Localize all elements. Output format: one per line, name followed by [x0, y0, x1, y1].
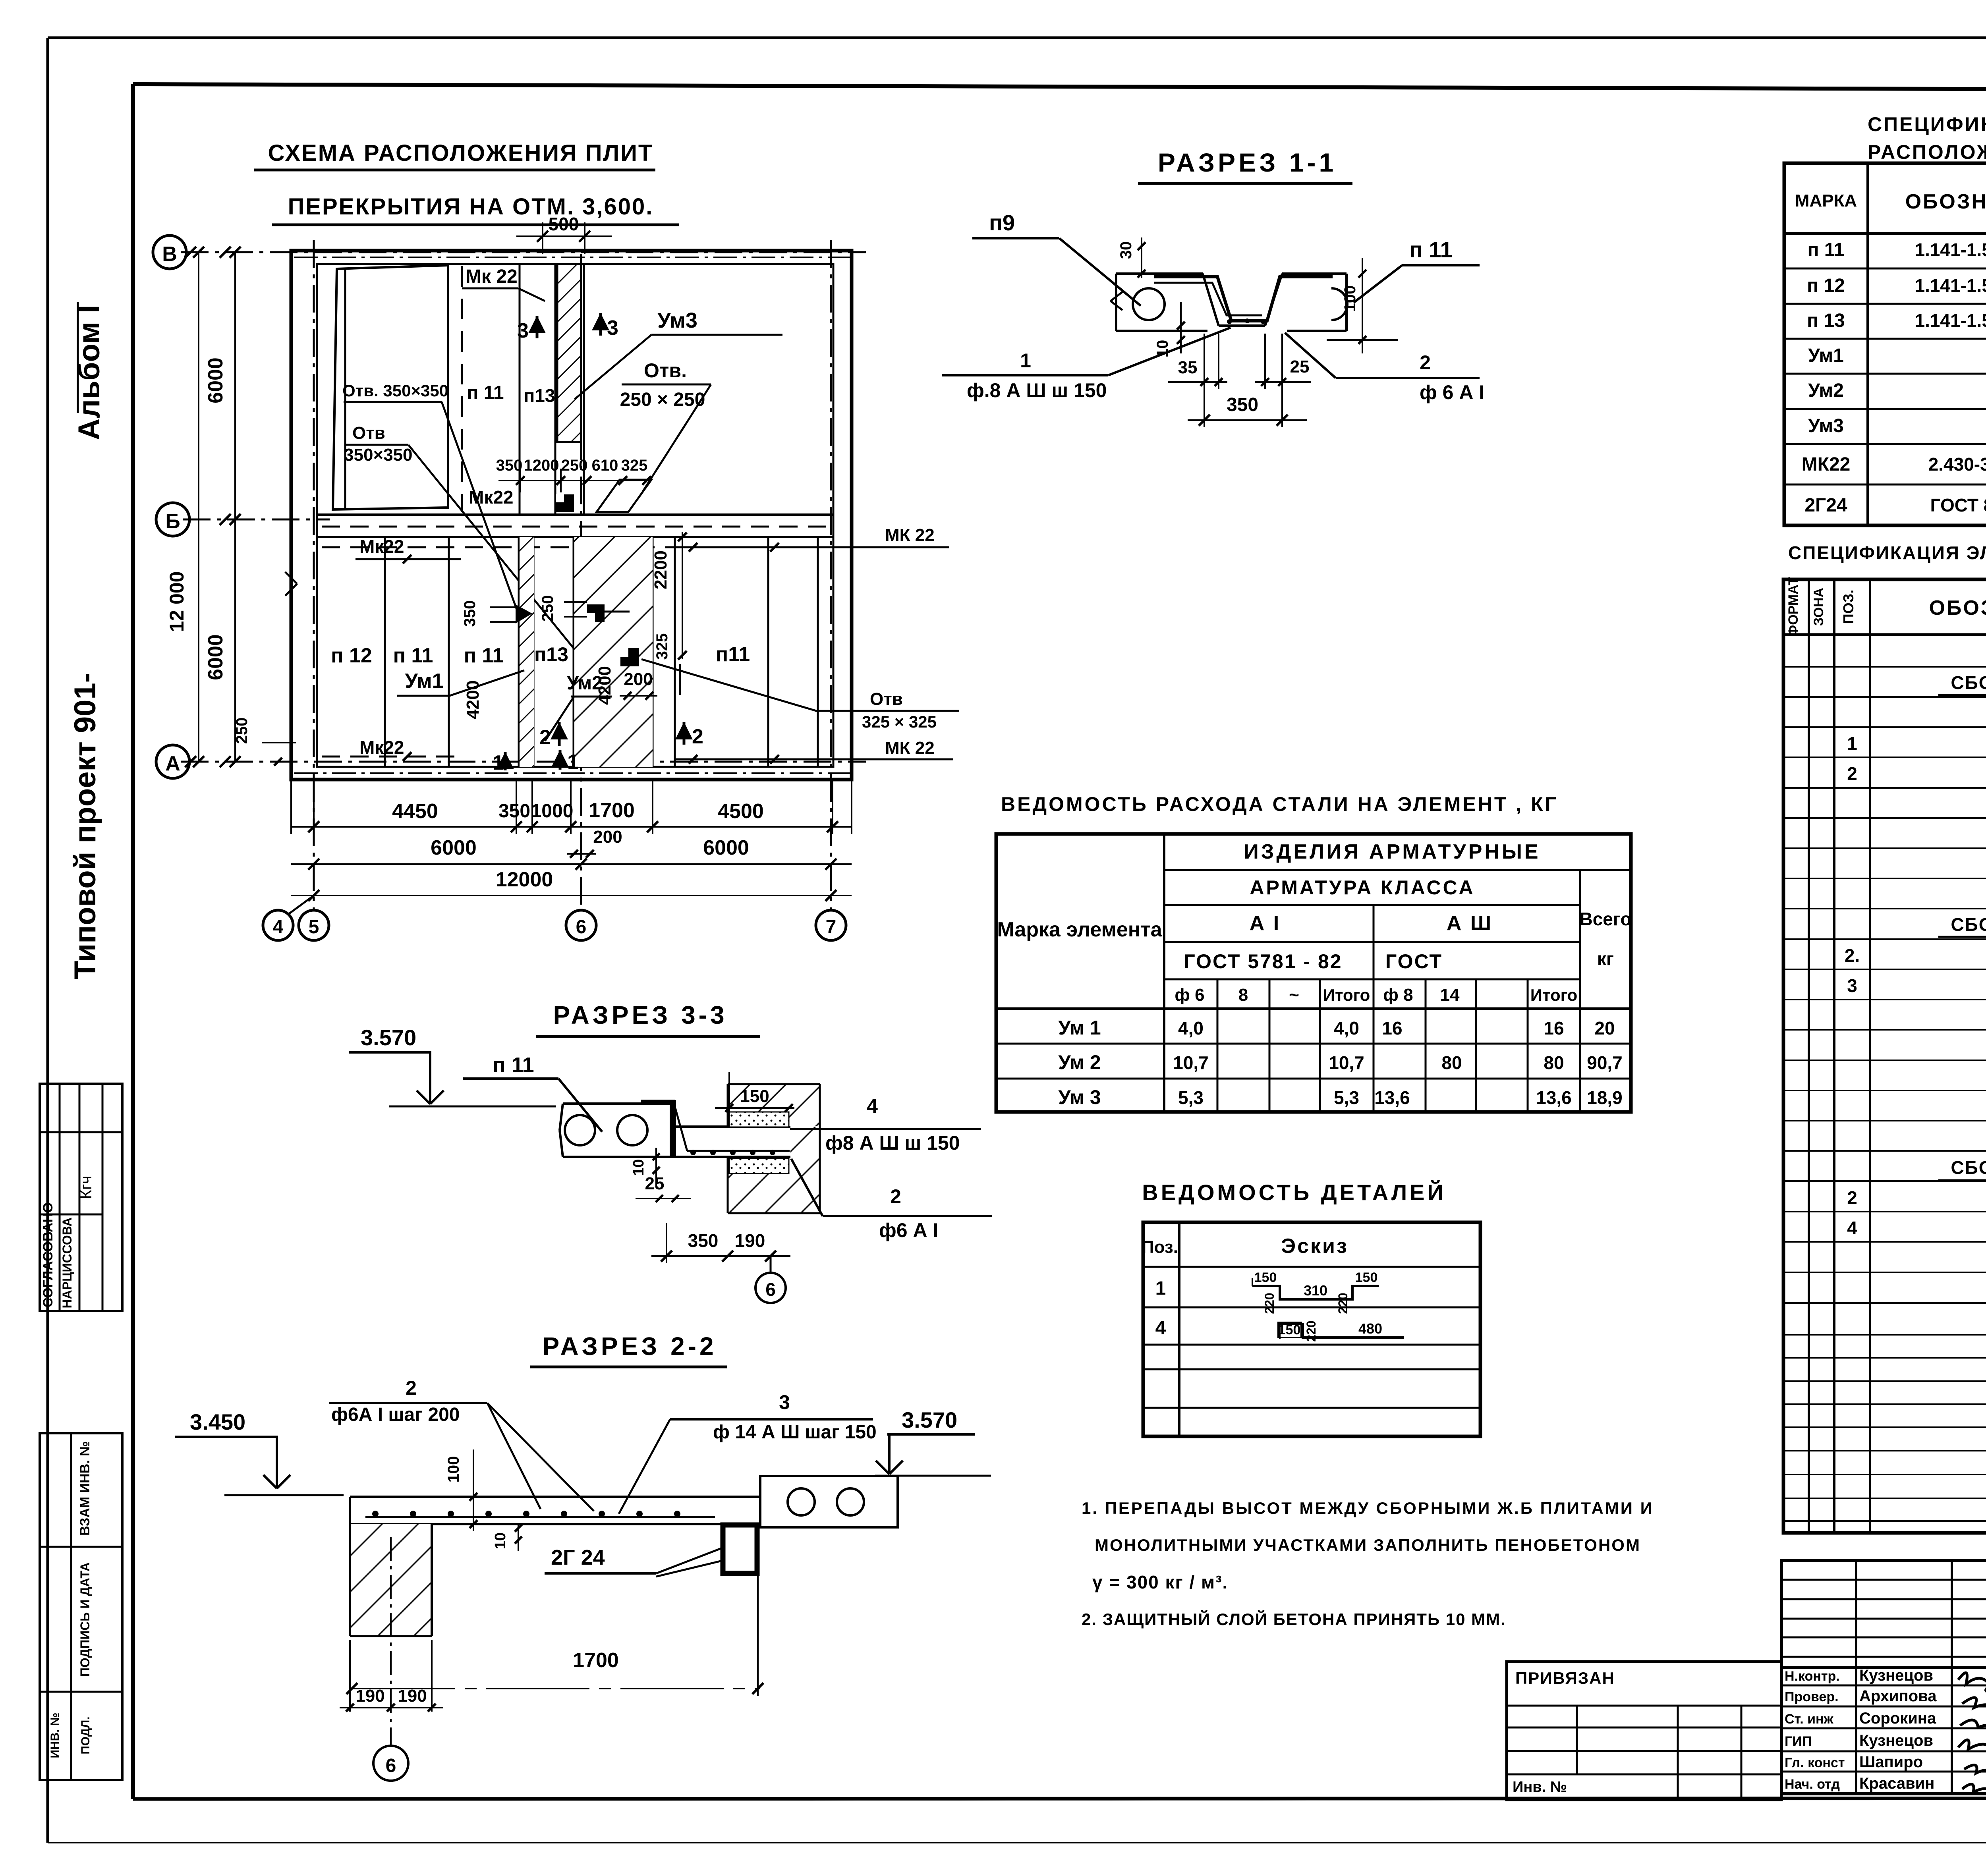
section 3-3 steel angle (thick)	[641, 1100, 675, 1158]
svg-text:3: 3	[1847, 975, 1857, 996]
svg-text:3: 3	[779, 1391, 790, 1413]
svg-text:ВЕДОМОСТЬ РАСХОДА СТАЛИ НА: ВЕДОМОСТЬ РАСХОДА СТАЛИ НА ЭЛЕМЕНТ , КГ	[1001, 793, 1558, 815]
svg-text:30: 30	[1117, 241, 1135, 259]
svg-text:350: 350	[1227, 394, 1258, 415]
svg-text:Итого: Итого	[1530, 986, 1577, 1004]
section 3-3 dims 10 25	[630, 1148, 691, 1202]
svg-text:АРМАТУРА КЛАССА: АРМАТУРА КЛАССА	[1250, 876, 1475, 899]
svg-text:п 12: п 12	[1807, 275, 1845, 296]
svg-text:ф 6: ф 6	[1175, 985, 1204, 1005]
svg-text:1700: 1700	[573, 1649, 619, 1672]
svg-text:Кгч: Кгч	[77, 1176, 95, 1199]
svg-text:2: 2	[1420, 351, 1431, 374]
svg-text:13,6: 13,6	[1536, 1087, 1572, 1108]
section 3-3 axis circle 6	[755, 1256, 786, 1303]
label Мк22 with embed mark (upper zone bottom)	[469, 487, 574, 512]
svg-text:150: 150	[1254, 1270, 1277, 1285]
label Мк22 (lower zone top left)	[355, 536, 461, 564]
section 1-1 joint trough	[1203, 274, 1282, 326]
svg-text:1000: 1000	[531, 801, 574, 822]
label Отв 325х325 (right outside)	[641, 659, 959, 731]
rotated dim 325	[653, 633, 680, 695]
section 1-1 dims 35 25 350	[1168, 334, 1311, 427]
svg-text:1. ПЕРЕПАДЫ ВЫСОТ МЕЖДУ СБО: 1. ПЕРЕПАДЫ ВЫСОТ МЕЖДУ СБОРНЫМИ Ж.Б ПЛИ…	[1082, 1499, 1654, 1517]
svg-text:100: 100	[1341, 286, 1359, 312]
svg-text:150: 150	[1355, 1270, 1378, 1285]
details table sketch pos.1	[1252, 1270, 1379, 1314]
section 1-1 left plate	[1111, 274, 1207, 331]
svg-text:ф 14 А Ш шаг 150: ф 14 А Ш шаг 150	[713, 1422, 877, 1443]
svg-text:6: 6	[386, 1755, 396, 1776]
label Ум1 with leader	[397, 670, 524, 696]
svg-text:4: 4	[1155, 1318, 1166, 1339]
svg-text:Ум2: Ум2	[1808, 380, 1844, 401]
svg-text:ГОСТ 8240-72*: ГОСТ 8240-72*	[1930, 495, 1986, 515]
svg-text:РАЗРЕЗ 3-3: РАЗРЕЗ 3-3	[553, 1001, 727, 1029]
svg-text:8: 8	[1238, 985, 1248, 1005]
section 3-3 hollow plate	[560, 1104, 670, 1157]
svg-text:Ум1: Ум1	[1808, 345, 1844, 366]
main title: Схема расположения плит перекрытия на отм. 3,600	[254, 140, 679, 225]
hatched wall strip in upper zone	[557, 264, 581, 442]
left dimension lines (6000/6000/12000)	[166, 247, 241, 767]
svg-text:220: 220	[1336, 1293, 1350, 1314]
section 2-2 label 2Г24	[545, 1546, 722, 1577]
svg-text:220: 220	[1304, 1320, 1318, 1341]
section mark 1 (mid)	[551, 750, 579, 774]
steel consumption table	[996, 834, 1632, 1112]
svg-text:Отв: Отв	[870, 689, 903, 709]
left margin stamp table (Взам инв / Подпись и дата / Инв №)	[40, 1433, 122, 1780]
svg-text:2200: 2200	[651, 550, 670, 589]
svg-text:16: 16	[1382, 1018, 1402, 1038]
svg-text:1.141-1.59. 620000: 1.141-1.59. 620000	[1915, 310, 1986, 331]
svg-text:п13: п13	[524, 385, 555, 406]
embed square МК22 no.2	[620, 648, 639, 666]
section 1-1 dim 10	[1154, 302, 1185, 357]
section 2-2 callout 3 ф14АIII шаг 150	[619, 1391, 877, 1514]
svg-text:3.570: 3.570	[361, 1025, 416, 1050]
axis line В	[181, 251, 866, 253]
lower zone dashed joint lines	[322, 546, 816, 548]
section 2-2 monolithic slab	[350, 1497, 760, 1524]
svg-text:кг: кг	[1597, 948, 1614, 969]
svg-text:325: 325	[653, 633, 671, 660]
svg-text:4,0: 4,0	[1334, 1018, 1359, 1038]
svg-text:6: 6	[576, 917, 587, 938]
section 3-3 callout 2 ф6АI	[791, 1159, 992, 1241]
svg-text:190: 190	[398, 1686, 427, 1706]
svg-text:2Г24: 2Г24	[1804, 495, 1847, 516]
svg-text:Ум 2: Ум 2	[1058, 1051, 1101, 1073]
svg-text:35: 35	[1178, 358, 1198, 377]
svg-text:100: 100	[445, 1456, 462, 1483]
svg-text:Марка элемента: Марка элемента	[997, 918, 1162, 941]
dim 500 above plan	[516, 214, 612, 254]
section 1-1 callout 2 ф6АI	[1285, 333, 1484, 403]
svg-text:80: 80	[1544, 1052, 1564, 1073]
section mark 2 (right)	[675, 722, 703, 748]
svg-text:Отв.: Отв.	[644, 359, 687, 382]
svg-text:ГОСТ: ГОСТ	[1385, 950, 1443, 973]
svg-text:4500: 4500	[718, 800, 764, 823]
svg-text:250 × 250: 250 × 250	[620, 389, 705, 410]
svg-text:п 11: п 11	[493, 1053, 534, 1077]
dim row 350 1200 250 610 325	[496, 457, 651, 492]
section 2-2 callout 2 ф6АI шаг 200	[329, 1377, 594, 1511]
svg-text:Провер.: Провер.	[1785, 1689, 1839, 1704]
section 2-2 dim 100	[445, 1449, 477, 1531]
svg-text:90,7: 90,7	[1587, 1052, 1623, 1073]
svg-text:1: 1	[1155, 1278, 1166, 1299]
svg-text:Поз.: Поз.	[1142, 1237, 1178, 1257]
svg-text:А I: А I	[1250, 912, 1281, 935]
svg-text:ИНВ. №: ИНВ. №	[48, 1712, 62, 1758]
section 3-3 brick wall hatched	[728, 1084, 820, 1213]
spec table 2: Ум3 block	[1847, 1127, 1986, 1299]
section 3-3 title	[536, 1001, 760, 1036]
svg-text:ф8 А Ш ш 150: ф8 А Ш ш 150	[825, 1132, 960, 1154]
svg-text:Ст. инж: Ст. инж	[1785, 1712, 1834, 1727]
svg-text:3.450: 3.450	[190, 1409, 245, 1434]
svg-text:ф 6 А I: ф 6 А I	[1420, 381, 1484, 403]
bottom dimension line 3 (12000)	[291, 868, 852, 901]
svg-text:350×350: 350×350	[344, 445, 413, 465]
rotated dim 250	[539, 595, 587, 622]
svg-text:2.: 2.	[1845, 945, 1860, 966]
svg-text:4200: 4200	[595, 666, 614, 705]
big hatched monolithic zone Ум2	[574, 537, 653, 767]
svg-text:ВЗАМ ИНВ. №: ВЗАМ ИНВ. №	[77, 1441, 93, 1536]
svg-text:ф6 А I: ф6 А I	[879, 1219, 938, 1241]
svg-text:Отв. 350×350: Отв. 350×350	[342, 381, 448, 400]
svg-text:1: 1	[1847, 733, 1857, 754]
svg-text:Мк22: Мк22	[359, 737, 404, 758]
section 1-1 dim 30	[1117, 237, 1146, 278]
section 2-2 title	[530, 1332, 727, 1367]
details table sketch pos.4	[1278, 1320, 1404, 1342]
svg-text:ф.8 А Ш ш 150: ф.8 А Ш ш 150	[967, 379, 1107, 401]
svg-text:2. ЗАЩИТНЫЙ СЛОЙ БЕТОНА ПРИ: 2. ЗАЩИТНЫЙ СЛОЙ БЕТОНА ПРИНЯТЬ 10 ММ.	[1082, 1610, 1506, 1629]
svg-text:6000: 6000	[204, 357, 227, 403]
wall centerline bottom	[294, 772, 850, 774]
svg-text:МАРКА: МАРКА	[1795, 191, 1857, 210]
svg-text:п 11: п 11	[1409, 237, 1453, 262]
section 3-3 dim 150	[715, 1072, 794, 1112]
svg-text:Итого: Итого	[1323, 986, 1370, 1004]
wall centerline top	[294, 257, 850, 258]
svg-text:Всего: Всего	[1579, 909, 1631, 929]
spec table 2: Ум2 block	[1845, 885, 1986, 1117]
svg-text:Шапиро: Шапиро	[1859, 1753, 1923, 1771]
left margin text: Типовой проект 901-	[68, 673, 102, 979]
section 2-2 axis circle 6	[373, 1537, 408, 1781]
svg-text:5,3: 5,3	[1178, 1087, 1204, 1108]
section 1-1 label п11	[1354, 237, 1480, 303]
section mark 1 (left)	[493, 751, 514, 774]
section mark 3 (right)	[592, 313, 618, 340]
label МК 22 (right outside, lower)	[675, 738, 953, 764]
section 1-1 dim 100	[1327, 258, 1398, 353]
svg-text:1: 1	[567, 751, 579, 774]
opening in upper zone (Отв.350х350 plate region)	[333, 265, 448, 510]
left margin stamp table (Согласовано)	[40, 1084, 122, 1311]
svg-text:п 12: п 12	[331, 644, 372, 667]
svg-text:190: 190	[735, 1230, 765, 1251]
svg-text:СОГЛАСОВАНО: СОГЛАСОВАНО	[41, 1202, 56, 1308]
svg-text:610: 610	[592, 457, 618, 474]
svg-text:4200: 4200	[463, 680, 483, 719]
svg-text:13,6: 13,6	[1374, 1087, 1410, 1108]
svg-text:Красавин: Красавин	[1859, 1775, 1934, 1792]
section 1-1 label п9	[972, 210, 1141, 306]
svg-text:СПЕЦИФИКАЦИЯ ЭЛЕМЕНТОВ: СПЕЦИФИКАЦИЯ ЭЛЕМЕНТОВ К СХЕМЕ	[1868, 113, 1986, 135]
svg-text:Б: Б	[165, 510, 180, 533]
details table	[1142, 1222, 1480, 1436]
svg-text:γ = 300 кг / м³.: γ = 300 кг / м³.	[1092, 1572, 1228, 1592]
svg-text:3: 3	[517, 319, 529, 342]
svg-text:Ум 3: Ум 3	[1058, 1086, 1101, 1108]
svg-text:Кузнецов: Кузнецов	[1859, 1732, 1933, 1749]
svg-text:6000: 6000	[431, 836, 477, 859]
svg-text:150: 150	[740, 1087, 769, 1106]
svg-text:ф6А I шаг 200: ф6А I шаг 200	[331, 1404, 460, 1425]
label Мк22 (lower zone bottom left)	[359, 737, 411, 761]
svg-text:п11: п11	[716, 643, 750, 666]
spec table 1	[1784, 163, 1986, 525]
svg-text:2: 2	[890, 1185, 901, 1208]
svg-text:5: 5	[309, 917, 319, 938]
section 3-3 monolithic slab	[673, 1108, 790, 1157]
section mark 2 (left)	[539, 722, 568, 749]
signatures squiggles	[1958, 1673, 1986, 1796]
svg-text:14: 14	[1440, 985, 1460, 1005]
svg-text:325 × 325: 325 × 325	[862, 712, 937, 731]
svg-text:1.141-1.59. 280000: 1.141-1.59. 280000	[1915, 239, 1986, 260]
svg-text:1.141-1.53. 480000: 1.141-1.53. 480000	[1915, 275, 1986, 296]
svg-text:350: 350	[496, 457, 523, 474]
svg-text:2: 2	[1847, 1187, 1857, 1208]
svg-text:ПОЗ.: ПОЗ.	[1840, 590, 1857, 624]
section 1-1 callout 1 ф8АIII ш150	[942, 328, 1231, 401]
svg-text:10,7: 10,7	[1173, 1052, 1209, 1073]
svg-text:Ум3: Ум3	[657, 309, 697, 332]
svg-text:ф 8: ф 8	[1383, 985, 1413, 1005]
svg-text:ОБОЗНАЧЕНИЕ: ОБОЗНАЧЕНИЕ	[1905, 190, 1986, 213]
svg-text:1700: 1700	[589, 799, 635, 822]
embed square МК22 no.1	[587, 604, 630, 622]
label Отв. 250х250 with leader	[620, 359, 711, 492]
svg-text:4: 4	[273, 917, 284, 938]
svg-text:220: 220	[1262, 1293, 1277, 1314]
svg-text:п9: п9	[989, 210, 1015, 235]
section 2-2 dim 1700	[346, 1575, 763, 1696]
svg-text:250: 250	[561, 457, 588, 474]
svg-text:200: 200	[624, 670, 653, 689]
svg-text:СХЕМА РАСПОЛОЖЕНИЯ ПЛИТ: СХЕМА РАСПОЛОЖЕНИЯ ПЛИТ	[268, 140, 654, 166]
svg-text:ПЕРЕКРЫТИЯ НА ОТМ. 3,600.: ПЕРЕКРЫТИЯ НА ОТМ. 3,600.	[288, 194, 654, 220]
svg-text:480: 480	[1358, 1320, 1382, 1337]
svg-text:350: 350	[461, 600, 479, 627]
upper zone plate boundary (dashed)	[461, 266, 463, 512]
svg-text:1200: 1200	[524, 457, 559, 474]
svg-text:1: 1	[1020, 349, 1031, 372]
svg-text:16: 16	[1544, 1018, 1564, 1038]
section 2-2 beam 2Г24	[723, 1525, 757, 1573]
section 2-2 dim 10	[492, 1524, 522, 1551]
svg-text:Архипова: Архипова	[1859, 1687, 1937, 1705]
svg-text:4450: 4450	[392, 800, 438, 823]
upper zone plate boundary lines	[519, 264, 521, 515]
svg-text:12 000: 12 000	[166, 571, 188, 632]
svg-text:2: 2	[692, 725, 703, 748]
svg-text:500: 500	[549, 214, 579, 234]
section 2-2 right hollow plate	[760, 1476, 898, 1527]
notes text	[1082, 1499, 1654, 1629]
axis line 7	[830, 240, 832, 911]
axis line 5	[313, 240, 315, 911]
svg-text:3: 3	[607, 317, 618, 340]
svg-text:п13: п13	[534, 643, 568, 666]
svg-text:Ум3: Ум3	[1808, 415, 1844, 436]
svg-text:А Ш: А Ш	[1447, 912, 1493, 935]
section 2-2 elevation 3.570	[875, 1407, 991, 1476]
section 3-3 elevation 3.570	[349, 1025, 556, 1106]
svg-text:Кузнецов: Кузнецов	[1859, 1667, 1933, 1684]
svg-text:ФОРМАТ: ФОРМАТ	[1786, 577, 1801, 637]
label Отв.350х350 (first)	[342, 381, 516, 608]
svg-text:10: 10	[630, 1159, 647, 1176]
left margin text: Альбом I	[72, 302, 106, 440]
svg-text:ГИП: ГИП	[1785, 1734, 1812, 1749]
svg-text:ПОДЛ.: ПОДЛ.	[79, 1716, 92, 1754]
svg-text:п 11: п 11	[467, 382, 504, 403]
svg-text:250: 250	[539, 595, 556, 622]
grid circle 5	[299, 910, 329, 940]
svg-text:25: 25	[645, 1174, 665, 1193]
svg-text:Эскиз: Эскиз	[1281, 1235, 1348, 1258]
svg-text:СБОРОЧНЫЕ: СБОРОЧНЫЕ	[1951, 1157, 1986, 1178]
svg-text:ОБОЗНАЧЕНИЕ: ОБОЗНАЧЕНИЕ	[1929, 596, 1986, 620]
section 3-3 label п11	[463, 1053, 602, 1132]
svg-text:Сорокина: Сорокина	[1859, 1710, 1936, 1727]
section 1-1 reinforcement mesh	[1154, 277, 1333, 324]
svg-text:20: 20	[1594, 1018, 1615, 1038]
grid circle Б	[156, 503, 231, 536]
svg-text:Н.контр.: Н.контр.	[1785, 1669, 1840, 1684]
svg-text:А: А	[165, 752, 180, 775]
section 2-2 dims 190 190	[340, 1640, 443, 1712]
section 2-2 brick wall hatched	[350, 1524, 432, 1636]
svg-text:6000: 6000	[204, 634, 227, 680]
opening projection parallelogram	[597, 480, 651, 512]
floor plan outer walls	[291, 251, 852, 780]
section 1-1 right plate	[1282, 274, 1347, 331]
svg-text:2: 2	[406, 1377, 417, 1399]
svg-text:7: 7	[826, 917, 837, 938]
label Отв 350х350 (second)	[344, 423, 577, 652]
svg-text:190: 190	[355, 1686, 384, 1706]
spec table 2	[1507, 577, 1986, 1800]
svg-text:350: 350	[688, 1230, 719, 1251]
dim 250 left of А axis	[233, 718, 296, 766]
svg-text:Мк 22: Мк 22	[466, 266, 518, 287]
label МК 22 (right outside, upper)	[675, 525, 949, 552]
svg-text:4: 4	[867, 1095, 878, 1117]
svg-text:РАСПОЛОЖЕНИЯ ПЛИТ ПЕР: РАСПОЛОЖЕНИЯ ПЛИТ ПЕРЕКРЫТИЯ.	[1868, 141, 1986, 163]
svg-text:ВЕДОМОСТЬ ДЕТАЛЕЙ: ВЕДОМОСТЬ ДЕТАЛЕЙ	[1142, 1180, 1446, 1205]
svg-text:ГОСТ 5781 - 82: ГОСТ 5781 - 82	[1184, 950, 1342, 973]
svg-text:Типовой проект 901-: Типовой проект 901-	[68, 673, 102, 979]
rotated dim 2200	[651, 532, 687, 660]
svg-text:СБОРОЧНЫЕ: СБОРОЧНЫЕ	[1951, 672, 1986, 693]
dim 200	[620, 670, 657, 700]
lower zone plate boundaries	[385, 537, 818, 767]
svg-text:ПРИВЯЗАН: ПРИВЯЗАН	[1515, 1669, 1615, 1687]
grid circle 4	[263, 896, 314, 940]
svg-text:10,7: 10,7	[1329, 1052, 1364, 1073]
svg-text:В: В	[162, 243, 177, 266]
section 3-3 bottom dims 350 190	[651, 1223, 790, 1263]
section mark 3 (left)	[517, 316, 546, 342]
axis line 6	[580, 254, 582, 911]
svg-text:РАЗРЕЗ 1-1: РАЗРЕЗ 1-1	[1158, 148, 1337, 177]
svg-text:2: 2	[1847, 763, 1857, 784]
svg-text:4,0: 4,0	[1178, 1018, 1204, 1038]
title block: signature table	[1781, 1561, 1986, 1796]
hatched strip lower zone	[520, 537, 534, 767]
svg-text:МК 22: МК 22	[885, 738, 935, 758]
svg-text:12000: 12000	[496, 868, 553, 891]
svg-text:СБОРОЧНЫЕ: СБОРОЧНЫЕ	[1951, 914, 1986, 935]
rotated dim 350 (lower)	[461, 600, 532, 627]
axis line Б	[183, 519, 330, 521]
svg-text:Ум 1: Ум 1	[1058, 1017, 1101, 1039]
svg-text:310: 310	[1304, 1282, 1327, 1299]
svg-text:10: 10	[492, 1532, 509, 1549]
svg-text:80: 80	[1441, 1052, 1462, 1073]
svg-text:ЗОНА: ЗОНА	[1811, 588, 1826, 626]
svg-text:6: 6	[765, 1279, 776, 1300]
section 3-3 callout 4 ф8АIII ш150	[790, 1095, 981, 1154]
svg-text:5,3: 5,3	[1334, 1087, 1359, 1108]
break mark on wall line	[285, 572, 297, 596]
svg-text:МОНОЛИТНЫМИ УЧАСТКАМИ ЗАПОЛН: МОНОЛИТНЫМИ УЧАСТКАМИ ЗАПОЛНИТЬ ПЕНОБЕТО…	[1095, 1536, 1641, 1554]
svg-text:350: 350	[498, 801, 530, 822]
svg-text:3.570: 3.570	[902, 1407, 957, 1432]
svg-text:18,9: 18,9	[1587, 1087, 1623, 1108]
svg-text:Ум1: Ум1	[405, 670, 443, 693]
svg-text:~: ~	[1289, 985, 1299, 1005]
svg-text:Отв: Отв	[352, 423, 385, 443]
svg-text:НАРЦИССОВА: НАРЦИССОВА	[60, 1218, 74, 1309]
section 2-2 elevation 3.450	[175, 1409, 344, 1495]
svg-text:РАЗРЕЗ 2-2: РАЗРЕЗ 2-2	[542, 1332, 717, 1361]
bottom dimension line 2 (6000/200/6000)	[291, 827, 852, 870]
svg-text:п 11: п 11	[464, 644, 504, 667]
label Ум3 with leader	[575, 309, 782, 399]
svg-text:Инв. №: Инв. №	[1513, 1779, 1567, 1795]
section 3-3 foam concrete stipple	[729, 1112, 789, 1173]
svg-text:25: 25	[1290, 357, 1310, 376]
svg-text:150: 150	[1278, 1322, 1301, 1338]
svg-text:1: 1	[493, 751, 504, 774]
svg-text:п 11: п 11	[393, 644, 433, 667]
floor band between zones (axis Б beam)	[317, 515, 833, 537]
svg-text:2Г 24: 2Г 24	[551, 1546, 605, 1569]
svg-text:Мк22: Мк22	[469, 487, 514, 508]
spec table 1 title	[1868, 113, 1986, 163]
